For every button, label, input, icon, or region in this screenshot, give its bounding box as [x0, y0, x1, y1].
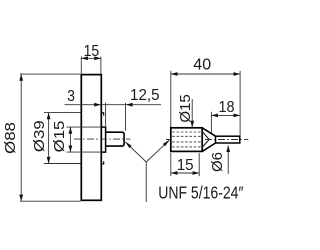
threaded stub	[106, 132, 125, 146]
dim Ø39 ext bottom	[44, 163, 81, 165]
dim Ø15 ext bottom	[67, 151, 102, 153]
dim 18 ext left	[210, 112, 212, 133]
cone top edge	[202, 128, 215, 136]
svg-text:Ø15: Ø15	[52, 120, 68, 152]
svg-text:3: 3	[67, 87, 75, 105]
ext tick neck edge	[105, 103, 107, 126]
svg-text:15: 15	[84, 42, 100, 60]
dim 15 arrow left	[81, 56, 88, 60]
boss Ø39 tick top	[101, 113, 103, 116]
dim 15 adapter line	[171, 172, 199, 174]
dim 3 arrow right	[94, 103, 101, 107]
dim 15 adapter ext right	[198, 153, 200, 176]
drill cone V bottom	[203, 140, 210, 147]
dim 40 line	[171, 73, 240, 75]
dim 40 ext right	[239, 71, 241, 136]
dim Ø15 ext top	[67, 126, 102, 128]
dim Ø39 arrow down	[47, 157, 51, 164]
leader stem	[145, 162, 147, 202]
cone bottom edge	[202, 143, 215, 151]
dim 18 arrow left	[211, 114, 218, 118]
leader arrow at adapter	[163, 140, 170, 147]
dim 18 line	[211, 114, 240, 116]
dim Ø15 arrow up	[69, 127, 73, 134]
dim 15 adapter arrow left	[171, 171, 178, 175]
dim 15 ext line right	[100, 57, 102, 74]
dim Ø39 ext top	[44, 112, 81, 114]
svg-text:Ø6: Ø6	[209, 152, 226, 172]
internal thread line 4	[172, 146, 201, 148]
leader branch to stub	[126, 142, 147, 162]
dim Ø6 line	[227, 145, 229, 173]
dim 3 and 12,5 shared line	[65, 104, 162, 106]
dim 40 ext left	[170, 71, 172, 127]
drill cone V top	[203, 132, 210, 140]
centerline right view	[166, 139, 248, 141]
svg-text:Ø88: Ø88	[3, 122, 19, 154]
dim Ø88 arrow down	[19, 195, 23, 202]
svg-text:12,5: 12,5	[130, 87, 160, 104]
dim 40 arrow left	[171, 72, 178, 76]
dim Ø15 adapter arrow down	[190, 121, 194, 128]
dim 15 adapter arrow right	[193, 171, 200, 175]
dim Ø15 arrow down	[69, 146, 73, 153]
dim 40 arrow right	[234, 72, 241, 76]
dim 15 adapter ext left	[170, 153, 172, 176]
svg-text:Ø15: Ø15	[177, 94, 194, 122]
internal thread line 3	[172, 141, 201, 143]
adapter body	[171, 128, 202, 152]
dim 15 arrow right	[94, 56, 101, 60]
dim Ø15 line	[69, 127, 71, 152]
svg-text:Ø39: Ø39	[32, 120, 48, 152]
internal thread line 2	[172, 135, 201, 137]
svg-text:40: 40	[193, 57, 211, 74]
dim 18 arrow right	[234, 114, 241, 118]
dim Ø88 ext top	[20, 73, 81, 75]
boss Ø39 tick bottom	[101, 161, 103, 164]
internal thread line 1	[172, 131, 201, 133]
svg-text:15: 15	[177, 157, 194, 174]
leader branch to adapter	[146, 140, 169, 162]
dim Ø88 line	[20, 74, 22, 201]
svg-text:18: 18	[218, 99, 234, 117]
flange body	[81, 75, 101, 201]
dim Ø39 line	[48, 113, 50, 164]
dim Ø88 ext bottom	[20, 200, 81, 202]
ext line stub end	[125, 103, 127, 131]
centerline left view	[74, 138, 131, 140]
dim 12,5 arrow left	[126, 103, 133, 107]
leader arrow at stub	[125, 141, 132, 148]
svg-text:UNF 5/16-24″: UNF 5/16-24″	[158, 183, 244, 203]
dim Ø39 arrow up	[47, 113, 51, 120]
neck Ø15 boss	[101, 127, 105, 152]
dim Ø15 adapter line	[191, 99, 193, 127]
dim Ø6 arrow up	[226, 145, 230, 152]
dim 15 line	[81, 57, 101, 59]
dim 15 ext line left	[80, 57, 82, 74]
dim Ø88 arrow up	[19, 74, 23, 81]
stud Ø6	[216, 136, 240, 143]
